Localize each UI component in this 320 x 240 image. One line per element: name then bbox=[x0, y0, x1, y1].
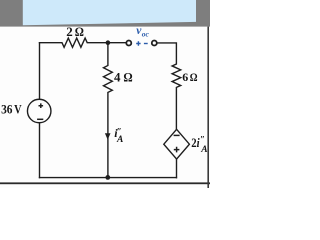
svg-text:Ω: Ω bbox=[190, 70, 198, 84]
svg-text:V: V bbox=[14, 102, 22, 117]
svg-text:A: A bbox=[116, 135, 123, 145]
svg-text:Ω: Ω bbox=[75, 24, 84, 39]
svg-text:″: ″ bbox=[200, 134, 205, 144]
svg-text:4: 4 bbox=[114, 70, 121, 85]
svg-text:36: 36 bbox=[1, 102, 13, 117]
svg-text:Ω: Ω bbox=[123, 70, 132, 85]
svg-text:2i: 2i bbox=[191, 136, 200, 150]
svg-text:A: A bbox=[200, 145, 207, 155]
svg-text:6: 6 bbox=[182, 70, 188, 84]
svg-text:2: 2 bbox=[66, 24, 73, 39]
